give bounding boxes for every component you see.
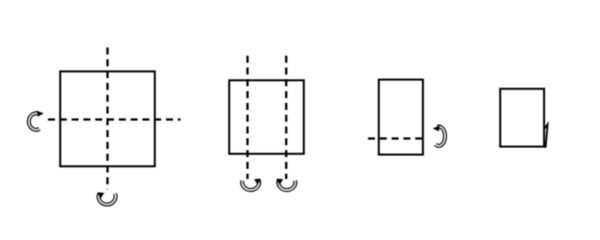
step 3 horizontal fold line (dashed) (368, 137, 425, 139)
step 1 paper square (60, 71, 155, 166)
step 4 corner flap (small triangle behind) (544, 124, 548, 146)
step 1 vertical fold line (dashed) (106, 48, 108, 190)
step 2 right vertical fold line (dashed) (285, 56, 287, 179)
step 2 paper square (229, 80, 304, 154)
step 4 bottom edge extension to flap (544, 146, 547, 148)
step 1 horizontal fold line (dashed) (48, 118, 181, 120)
step 3 folded paper rectangle (379, 80, 423, 155)
step 2 right fold arrow (U shape, head at left tip) (276, 179, 295, 190)
step 1 bottom fold arrow (U shape, head at left tip) (97, 192, 115, 204)
step 2 left vertical fold line (dashed) (246, 56, 248, 179)
step 4 folded paper rectangle (500, 89, 544, 147)
step 1 left fold arrow (curved C, head pointing right) (29, 111, 44, 130)
step 2 left fold arrow (U shape, head at right tip) (242, 179, 261, 190)
step 3 right fold arrow (curved reversed C, head pointing left) (433, 125, 445, 146)
